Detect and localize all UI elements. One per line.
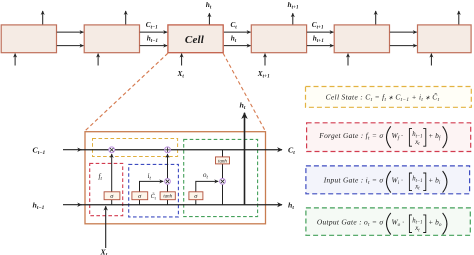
- equation box output gate: [306, 208, 470, 235]
- plus node cell state: [165, 147, 171, 153]
- svg-text:ht: ht: [288, 201, 294, 212]
- RNN cell box 5: [334, 25, 389, 53]
- arrow out top box6: [458, 11, 460, 24]
- wire multiply_o to h line: [222, 185, 224, 205]
- wire h line main: [81, 204, 282, 206]
- svg-text:ht: ht: [206, 0, 212, 10]
- arrow out top box4: [292, 13, 294, 24]
- multiply node input: [165, 179, 171, 185]
- wire C line main: [81, 149, 282, 151]
- wire h to sigma_o stub: [195, 200, 197, 205]
- svg-text:Ct+1: Ct+1: [312, 21, 324, 31]
- equation box cell state: [306, 87, 472, 108]
- svg-text:Forget Gate : ft = σ: Forget Gate : ft = σ: [318, 131, 383, 142]
- arrow out top box5: [375, 11, 377, 24]
- svg-text:ht: ht: [240, 101, 246, 112]
- multiply node forget: [109, 147, 115, 153]
- svg-text:Wi ·: Wi ·: [392, 175, 403, 186]
- svg-text:Wf ·: Wf ·: [392, 131, 403, 142]
- wire h box4 to box5: [307, 45, 334, 47]
- dashed expansion line right: [223, 53, 265, 131]
- arrow in bottom box1: [14, 54, 16, 66]
- svg-text:Output Gate : ot = σ: Output Gate : ot = σ: [317, 217, 383, 228]
- wire h to sigma_i stub: [139, 200, 141, 205]
- wire X_t input arrow: [105, 206, 107, 248]
- wire sigma_f to multiply node: [111, 154, 113, 192]
- arrow in bottom Cell: [181, 54, 183, 66]
- arrow in bottom box2: [97, 54, 99, 66]
- wire h to tanh_i stub: [167, 200, 169, 205]
- wire h_t up output: [244, 113, 246, 205]
- arrow in bottom box5: [347, 54, 349, 66]
- svg-text:ht+1: ht+1: [288, 0, 299, 10]
- tanh box output: [216, 157, 230, 165]
- wire sigma_i to multiply node elbow: [140, 181, 164, 192]
- dashed expansion line left: [85, 53, 167, 130]
- input gate region (blue dashed box): [129, 164, 179, 217]
- svg-text:tanh: tanh: [163, 195, 172, 200]
- svg-text:Xt: Xt: [177, 69, 185, 80]
- wire tanh_o to multiply_o: [222, 164, 224, 179]
- svg-text:Ct−1: Ct−1: [33, 145, 46, 156]
- sigma box output: [189, 192, 203, 200]
- RNN Cell box 3 (Cell): [168, 25, 223, 53]
- wire C box2 to Cell: [140, 31, 167, 33]
- svg-text:ht+1: ht+1: [313, 35, 324, 45]
- wire sigma_o to multiply_o elbow: [196, 181, 218, 191]
- svg-text:ht−1: ht−1: [147, 35, 159, 45]
- svg-text:Ct−1: Ct−1: [146, 21, 158, 31]
- svg-text:ht: ht: [231, 35, 237, 45]
- LSTM outer box: [85, 132, 266, 224]
- svg-text:Cell: Cell: [185, 34, 205, 46]
- forget gate region (red dashed box): [90, 163, 123, 215]
- sigma box forget: [104, 192, 120, 200]
- wire C to tanh_o: [222, 150, 224, 157]
- svg-text:Ct: Ct: [288, 146, 295, 157]
- wire C box1 to box2: [57, 31, 84, 33]
- wire C box5 to box6: [390, 31, 417, 33]
- output gate region (green dashed box): [184, 139, 258, 216]
- RNN cell box 2: [84, 25, 139, 53]
- wire h box2 to Cell: [140, 45, 167, 47]
- wire C Cell to box4: [224, 31, 251, 33]
- arrow in bottom box4: [264, 54, 266, 66]
- arrow in bottom box6: [430, 54, 432, 66]
- cell-state region (yellow dashed box): [93, 139, 178, 157]
- tanh box input: [160, 192, 175, 200]
- svg-text:Ct: Ct: [231, 21, 238, 31]
- arrow out top Cell: [208, 13, 210, 24]
- wire multiply_i to plus node: [167, 154, 169, 178]
- wire h box5 to box6: [390, 45, 417, 47]
- arrow out top box2: [125, 11, 127, 24]
- multiply node output: [220, 179, 226, 185]
- wire h to sigma_f stub: [111, 200, 113, 205]
- RNN cell box 4: [251, 25, 306, 53]
- wire h Cell to box4: [224, 45, 251, 47]
- wire tanh_i to multiply node: [167, 185, 169, 192]
- svg-text:Xt: Xt: [100, 248, 108, 255]
- RNN cell box 1: [1, 25, 56, 53]
- RNN cell box 6: [418, 25, 472, 53]
- wire h line left segment with arrow: [63, 204, 82, 206]
- wire C line left segment with arrow: [63, 149, 82, 151]
- svg-text:Input Gate : it = σ: Input Gate : it = σ: [323, 175, 384, 186]
- equation box input gate: [306, 166, 470, 194]
- wire h box1 to box2: [57, 45, 84, 47]
- sigma box input: [132, 192, 148, 200]
- arrow out top box1: [42, 11, 44, 24]
- svg-text:tanh: tanh: [218, 159, 227, 164]
- svg-text:ht−1: ht−1: [33, 200, 45, 211]
- svg-text:Xt+1: Xt+1: [257, 69, 270, 80]
- equation box forget gate: [307, 123, 471, 152]
- wire C box4 to box5: [307, 31, 334, 33]
